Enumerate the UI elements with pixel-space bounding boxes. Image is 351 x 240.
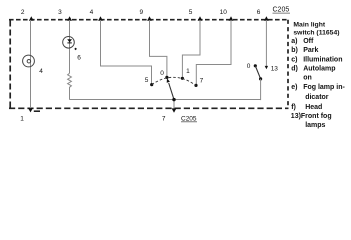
rotary pivot node [172,98,175,101]
svg-text:0: 0 [160,70,164,77]
svg-text:f): f) [291,104,296,111]
rotary contact 1 [181,77,184,80]
svg-text:Fog lamp in-: Fog lamp in- [303,84,345,91]
pin 2 (C205 top) [29,16,34,20]
svg-text:10: 10 [220,9,228,16]
contact 13 arrowhead (end of pin 6 wire) [265,66,268,69]
rotary contact 0 [165,76,168,79]
pin 1 (C205 bottom) [28,108,33,112]
svg-text:on: on [303,75,312,82]
rotary contact 7 [194,84,197,87]
svg-text:0: 0 [247,63,251,70]
svg-text:5: 5 [189,9,193,16]
LED 6: diode triangle [67,39,72,42]
svg-text:Front fog: Front fog [301,113,332,120]
svg-text:7: 7 [162,115,166,122]
pin 4 (C205 top) [98,16,103,20]
wire: bottom bus from resistor to right switch [70,99,261,101]
pin 3 (C205 top) [67,16,72,20]
svg-text:C205: C205 [181,115,197,122]
svg-text:9: 9 [140,9,144,16]
svg-text:1: 1 [186,68,190,75]
svg-text:7: 7 [200,78,204,85]
wire: pin 9 staircase to contact 0 [150,20,167,76]
pin 10 (C205 top) [229,16,234,20]
svg-text:switch (11654): switch (11654) [293,30,339,37]
svg-text:Illumination: Illumination [303,57,342,64]
svg-text:d): d) [291,66,298,73]
lamp bulb 4 (park lamp): circle [23,55,35,67]
switch body dashed outline: right border [287,20,289,109]
svg-text:C205: C205 [273,7,290,14]
wire: pin 6 down to contact 13 [265,20,267,66]
svg-text:1: 1 [20,116,24,123]
fog switch arm (in position 0) [255,66,260,79]
LED 6 (fog lamp indicator): circle [63,37,75,49]
svg-text:e): e) [291,84,297,91]
pin 7 (C205 bottom) [172,108,177,112]
switch body dashed outline: top border [9,19,289,21]
rotary wiper travel arc (dashed) [152,77,196,85]
wire: pin 2 down through lamp to pin 1 [30,20,32,109]
rotary wiper arm (points at contact 0) [169,83,174,100]
svg-text:Head: Head [305,104,322,111]
pin 5 (C205 top) [198,16,203,20]
svg-text:3: 3 [58,9,62,16]
lamp bulb 4: filament loop [27,59,31,63]
resistor (LED series) zigzag [68,73,72,99]
svg-text:13: 13 [271,65,279,72]
rotary contact 5 [150,83,153,86]
svg-text:Park: Park [303,47,318,54]
junction node at pin 7 drop [173,98,176,101]
svg-text:13): 13) [291,113,301,120]
bottom border jog dash beside pin 1 [34,110,40,112]
svg-text:4: 4 [39,68,43,75]
wire: pin 10 staircase to contact 7 [196,20,231,84]
svg-text:6: 6 [77,54,81,61]
svg-text:c): c) [291,57,297,64]
svg-text:Off: Off [303,38,314,45]
switch body dashed outline: bottom border [9,107,289,109]
svg-text:Main light: Main light [293,22,325,29]
fog switch contact 0 [254,64,257,67]
svg-text:lamps: lamps [305,122,325,129]
wire: junction down to pin 7 [173,100,175,109]
LED 6: emission diamond [74,48,77,51]
svg-text:Autolamp: Autolamp [303,66,335,73]
wire: fog switch pivot down to bus [260,79,262,100]
pin 9 (C205 top) [147,16,152,20]
svg-text:dicator: dicator [305,94,329,101]
svg-text:5: 5 [145,77,149,84]
wire: pin 5 staircase to contact 1 [182,20,200,77]
LED 6: diode bar [67,42,71,44]
svg-text:b): b) [291,47,298,54]
svg-text:4: 4 [90,9,94,16]
svg-text:a): a) [291,38,297,45]
pin 6 (C205 top) [264,16,269,20]
wire: pin 3 down to LED [69,20,71,73]
svg-text:2: 2 [21,9,25,16]
svg-text:6: 6 [257,9,261,16]
switch body dashed outline: left border [9,21,11,109]
wire: pin 4 staircase to contact 5 [101,20,152,83]
fog switch pivot node [259,77,262,80]
